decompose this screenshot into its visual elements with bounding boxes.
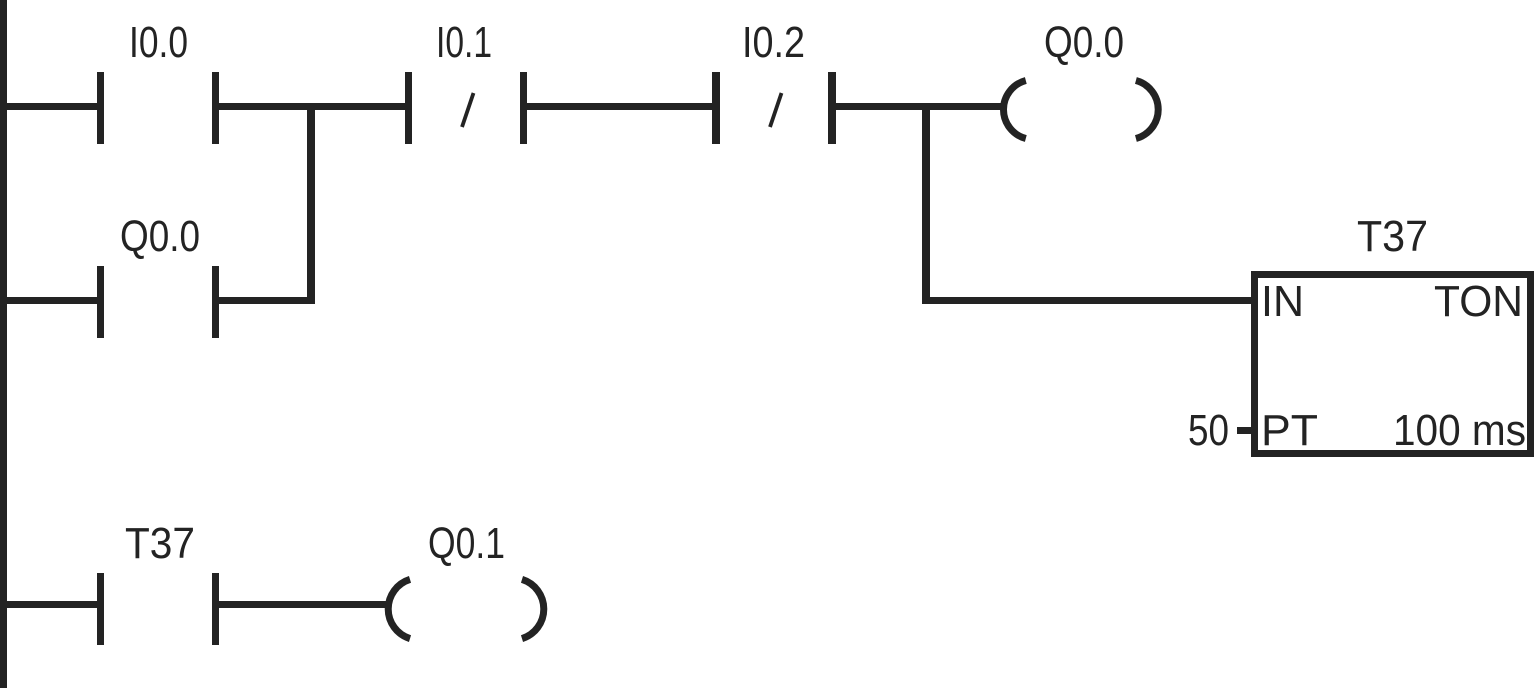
svg-text:IN: IN — [1261, 277, 1304, 326]
contact I0.0 — [97, 72, 219, 144]
left power rail — [0, 0, 7, 688]
contact I0.2 (normally closed) — [712, 72, 836, 144]
svg-text:Q0.0: Q0.0 — [1044, 18, 1124, 67]
contact T37 — [97, 573, 219, 645]
svg-text:T37: T37 — [1357, 212, 1428, 261]
wire T37 contact to coil Q0.1 — [219, 601, 389, 608]
wire I0.2 to coil Q0.0 — [836, 103, 1002, 110]
svg-text:Q0.1: Q0.1 — [428, 519, 505, 568]
svg-text:I0.1: I0.1 — [436, 18, 492, 67]
junction branch down to timer T37 — [922, 103, 930, 304]
svg-text:TON: TON — [1434, 277, 1523, 326]
svg-text:50: 50 — [1188, 406, 1229, 455]
contact Q0.0 (parallel seal-in) — [97, 266, 219, 338]
svg-text:PT: PT — [1261, 406, 1318, 455]
junction branch down to Q0.0 parallel contact — [307, 103, 315, 304]
timer box T37 TON — [1255, 275, 1531, 454]
svg-text:100 ms: 100 ms — [1393, 406, 1526, 455]
coil Q0.0 — [1003, 81, 1158, 139]
PT input tick — [1237, 427, 1251, 434]
svg-text:T37: T37 — [125, 519, 195, 568]
svg-text:Q0.0: Q0.0 — [120, 212, 200, 261]
svg-text:I0.0: I0.0 — [129, 18, 188, 67]
wire branch to timer IN — [930, 297, 1251, 304]
svg-text:I0.2: I0.2 — [742, 18, 805, 67]
wire I0.1 to I0.2 — [527, 103, 712, 110]
contact I0.1 (normally closed) — [405, 72, 527, 144]
wire rung1 parallel branch: rail to Q0.0 contact — [7, 297, 97, 304]
wire rung2 rail to T37 contact — [7, 601, 97, 608]
wire I0.0 to I0.1 — [219, 103, 405, 110]
coil Q0.1 — [388, 579, 544, 638]
wire rung1 rail to I0.0 — [7, 103, 97, 110]
wire Q0.0 contact to junction — [219, 297, 315, 304]
